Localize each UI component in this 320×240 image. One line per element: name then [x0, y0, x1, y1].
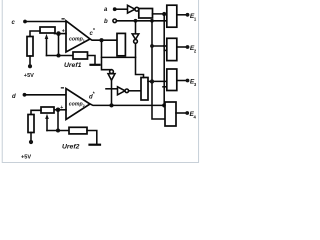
inverter N1 triangle	[128, 5, 135, 13]
node dot on d-star wire	[109, 103, 113, 107]
resistor Uref2 body	[69, 127, 87, 134]
node a terminal dot	[113, 7, 117, 11]
node c terminal dot	[23, 20, 27, 24]
svg-text:comp: comp	[69, 36, 83, 42]
svg-text:*: *	[93, 92, 95, 98]
border frame	[2, 0, 198, 162]
wire G3 output	[177, 80, 187, 82]
svg-text:Uref2: Uref2	[62, 143, 80, 150]
node dot E1	[186, 13, 190, 17]
resistor Uref1 body	[73, 52, 88, 59]
svg-text:+5V: +5V	[21, 154, 31, 160]
inverter N3 bubble	[125, 89, 129, 93]
wire P2 left to R2	[31, 110, 41, 114]
node dot V1 top	[162, 12, 166, 16]
wire under MB1 connecting c-star vertical to N4 chain	[102, 56, 136, 58]
wire Uref1 to ground	[88, 56, 96, 65]
wire G2 output	[177, 46, 187, 48]
wire V1 to gate G2 input2	[164, 49, 167, 51]
wire c-star down to inverter N2	[102, 40, 112, 69]
svg-text:d: d	[12, 94, 16, 100]
wire G1 output	[177, 14, 187, 16]
potentiometer P1 body	[40, 27, 55, 33]
node b terminal circle	[113, 19, 117, 23]
ground bar 1	[91, 64, 100, 66]
node junction dot on rail2	[56, 128, 60, 132]
comp1 minus mark	[62, 18, 65, 19]
wire N2 output down to d-star wire	[111, 80, 113, 105]
node dot b to inverter N4	[134, 19, 138, 23]
node dot E4	[185, 111, 189, 115]
wire V1 bus vertical	[163, 14, 165, 105]
wire Uref2 to ground 2	[87, 131, 97, 144]
gate G1	[167, 5, 177, 27]
wire MB2 output to gate G3 input1	[148, 80, 167, 82]
svg-text:3: 3	[194, 82, 197, 87]
svg-text:comp: comp	[69, 101, 83, 107]
inverter N4 triangle (down)	[132, 34, 139, 40]
wire b bus vertical	[152, 21, 165, 119]
wire rail2	[47, 130, 69, 132]
svg-text:b: b	[104, 19, 108, 25]
wire c to comp1 minus input	[25, 21, 66, 23]
node dot b bus G2	[150, 44, 154, 48]
node dot c-star	[99, 38, 103, 42]
wire comp1 output	[90, 39, 117, 40]
svg-text:a: a	[104, 7, 108, 13]
svg-text:+5V: +5V	[24, 73, 34, 79]
gate G3	[167, 69, 177, 91]
wire N3 output to MB2	[129, 90, 141, 92]
wire b to gate G1	[117, 20, 167, 22]
comp2 minus mark	[61, 87, 64, 88]
wire a to inverter N1	[115, 8, 128, 10]
wire junction down to rail2	[57, 110, 59, 131]
node dot b bus at G3	[150, 79, 154, 83]
inverter N2 triangle (down)	[108, 74, 115, 81]
svg-text:1: 1	[194, 17, 197, 22]
wire P1 right to comp1 plus input	[55, 33, 67, 35]
node dot E3	[186, 79, 190, 83]
node junction dot on rail1	[56, 53, 60, 57]
inverter N3 triangle (right)	[118, 87, 126, 95]
op-amp comp1	[66, 21, 90, 52]
wire SB output to gate G1	[153, 13, 167, 15]
gate G2	[167, 38, 177, 60]
inverter N1 bubble	[135, 7, 139, 11]
gate MB2	[141, 78, 148, 101]
node d terminal dot	[23, 93, 27, 97]
wire comp2 output d-star	[90, 104, 165, 105]
P2 wiper arrow	[46, 119, 48, 131]
+5V terminal dot	[28, 64, 32, 68]
wire P1 left to R1	[30, 31, 40, 37]
gate SB	[139, 9, 153, 19]
resistor R2	[28, 115, 34, 133]
svg-text:*: *	[93, 28, 95, 34]
inverter N2 bubble (input)	[110, 70, 114, 74]
potentiometer P2 body	[41, 107, 54, 113]
svg-text:c: c	[12, 20, 16, 26]
wire R2 to +5V terminal	[30, 133, 32, 141]
ground bar 2	[90, 144, 101, 146]
wire V1 to gate G3 input2	[163, 86, 167, 88]
wire b bus to gate G2 input1	[152, 45, 167, 47]
gate MB1	[117, 33, 125, 55]
wire P2 right to comp2 plus input	[54, 109, 66, 111]
node dot V1 bottom	[162, 103, 166, 107]
svg-text:4: 4	[194, 115, 197, 120]
node dot b bus top	[150, 19, 154, 23]
wire R1 to +5V terminal	[29, 56, 31, 65]
resistor R1	[27, 37, 33, 57]
wire b down to inverter N4	[135, 21, 137, 34]
wire N4 output down to MB2 top	[136, 43, 144, 77]
inverter N4 bubble	[134, 40, 138, 44]
gate G4	[165, 102, 176, 126]
node dot E2	[186, 45, 190, 49]
wire rail1	[47, 55, 74, 57]
wire junction down to rail1	[58, 34, 60, 56]
+5V terminal dot 2	[29, 140, 33, 144]
wire d to comp2 minus input	[25, 94, 67, 96]
node dot V1 at G2	[163, 45, 166, 48]
svg-text:2: 2	[194, 49, 197, 54]
svg-text:Uref1: Uref1	[64, 62, 82, 69]
op-amp comp2	[66, 89, 90, 120]
svg-text:1: 1	[83, 39, 85, 43]
node junction dot A2	[56, 108, 61, 113]
wire inverter N3 input	[106, 88, 118, 90]
node junction dot A1	[56, 31, 61, 36]
P1 wiper arrow	[46, 39, 48, 56]
wire G4 output	[176, 112, 187, 114]
svg-text:2: 2	[83, 104, 85, 108]
